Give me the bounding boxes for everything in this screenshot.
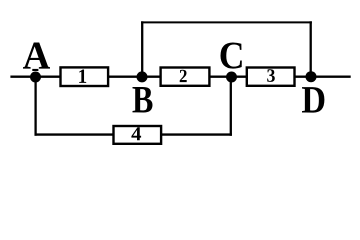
wire C down vertical: [230, 77, 232, 136]
wire bottom rail right segment: [162, 133, 232, 135]
node A junction dot: [30, 72, 41, 83]
node B label: [133, 87, 153, 113]
node D label: [302, 87, 324, 112]
wire bottom rail left segment: [35, 133, 114, 135]
resistor R1 value label 1: [79, 70, 86, 83]
resistor R2 box: [161, 68, 210, 86]
resistor R4 box: [114, 126, 162, 144]
resistor R2 value label 2: [180, 70, 187, 82]
wire B to top rail vertical: [141, 21, 143, 76]
wire main horizontal bus A-B-C-D: [10, 75, 350, 77]
resistor R3 value label 3: [267, 69, 275, 82]
node A tick mark under label: [32, 69, 38, 71]
wire A down vertical: [34, 77, 36, 136]
node C junction dot: [226, 72, 237, 83]
resistor R3 box: [247, 68, 295, 86]
wire top rail to D vertical: [310, 21, 312, 76]
node D junction dot: [306, 71, 317, 82]
node A label: [23, 42, 50, 68]
resistor R4 value label 4: [131, 127, 141, 140]
wire top rail horizontal B to D: [141, 21, 312, 23]
resistor R1 box: [61, 67, 109, 86]
node B junction dot: [137, 71, 148, 82]
node C label: [220, 43, 241, 69]
